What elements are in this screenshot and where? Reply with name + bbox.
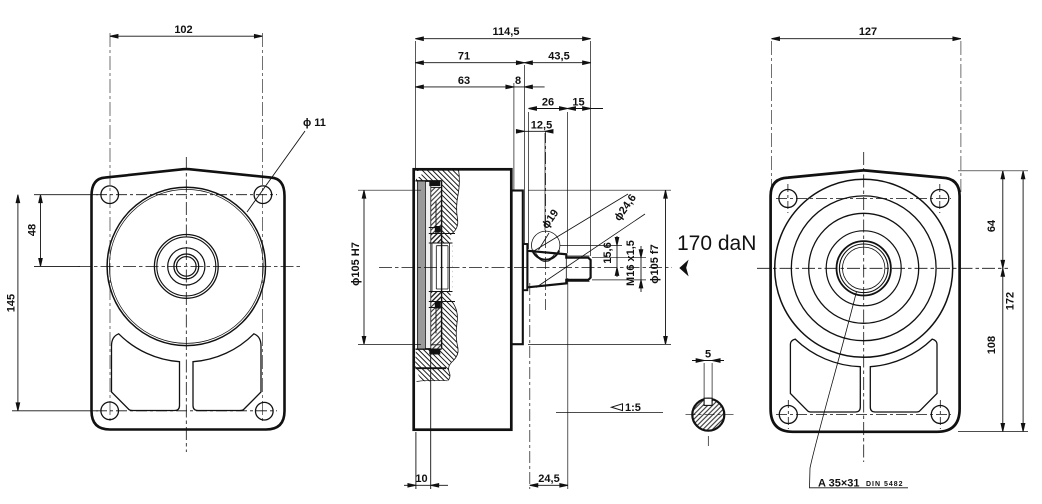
hole vertical ticks <box>788 184 940 429</box>
bolt hole bottom-left <box>779 406 797 424</box>
ball lower heavy arc <box>532 250 559 260</box>
svg-text:A 35×31: A 35×31 <box>818 478 860 490</box>
ball phi19 thin circle <box>532 231 560 259</box>
shaft hole outer <box>174 254 199 279</box>
bolt hole top-right <box>254 186 272 204</box>
spigot plate phi105 f7 <box>511 191 523 345</box>
svg-text:108: 108 <box>986 336 998 354</box>
spline circle <box>843 247 885 289</box>
bearing seat band top <box>429 234 442 244</box>
dim 127 <box>772 37 961 192</box>
dim phi105 H7 <box>358 190 421 344</box>
big circle outer <box>775 179 953 357</box>
svg-text:43,5: 43,5 <box>548 51 569 63</box>
dim 71 / 43.5 <box>415 61 590 65</box>
boss outer circle <box>154 235 218 299</box>
taper 1:5 reference line <box>556 412 663 414</box>
dim 172 <box>1021 171 1025 432</box>
LEFT VIEW <box>6 24 326 452</box>
bearing bush hatch lower <box>431 292 442 349</box>
flange outline (front view) <box>92 169 285 429</box>
tapered shaft with thread <box>528 251 591 287</box>
svg-text:172: 172 <box>1005 292 1017 310</box>
white chamber <box>431 244 453 291</box>
svg-text:145: 145 <box>6 294 18 312</box>
dim 63 / 8 <box>415 85 544 89</box>
bolt hole top-right <box>931 190 949 208</box>
svg-text:15,6: 15,6 <box>602 242 614 263</box>
casting boundary lower <box>448 302 458 381</box>
section housing hatch field <box>415 170 460 382</box>
leader phi24.6 lower <box>536 214 645 288</box>
bore circle outer <box>837 241 891 295</box>
bearing seat band bottom <box>429 292 442 302</box>
dim 114.5 <box>415 37 590 41</box>
svg-text:64: 64 <box>986 219 998 232</box>
dim 26 / 15 <box>529 107 604 111</box>
dim M16 <box>592 246 646 292</box>
svg-text:127: 127 <box>859 26 877 38</box>
main circle (pilot face) <box>107 187 265 345</box>
casting boundary wavy line <box>452 170 459 234</box>
bush bottom line <box>429 344 442 346</box>
svg-text:48: 48 <box>27 224 39 236</box>
pilot face inner ring <box>109 189 263 343</box>
left pocket <box>790 339 860 412</box>
centerline vertical <box>185 157 187 452</box>
step lines bearing seat bottom <box>429 292 455 334</box>
force arrow 170daN <box>679 260 688 277</box>
casting floor thick line <box>416 367 447 369</box>
seal square top inner <box>435 226 441 233</box>
svg-text:26: 26 <box>542 96 554 108</box>
svg-text:102: 102 <box>174 24 192 36</box>
dim 5 key <box>692 359 724 402</box>
hole centerline top <box>776 198 951 200</box>
svg-text:10: 10 <box>415 473 427 485</box>
svg-text:5: 5 <box>705 349 711 361</box>
svg-text:71: 71 <box>458 51 470 63</box>
svg-text:24,5: 24,5 <box>538 473 559 485</box>
seal square top outer <box>429 181 440 186</box>
svg-text:DIN 5482: DIN 5482 <box>866 481 904 488</box>
bush outer wall line <box>441 181 443 349</box>
white notch top-left <box>415 171 422 177</box>
seal square bottom outer <box>429 349 440 355</box>
shaft centerline <box>379 266 672 268</box>
taper symbol triangle <box>612 404 623 411</box>
MIDDLE VIEW <box>350 26 756 489</box>
dim 102 extension left (dash-dot through holes) <box>109 33 111 424</box>
svg-text:M16 x1,5: M16 x1,5 <box>625 240 637 286</box>
liner bottom cap <box>416 348 442 350</box>
svg-text:15: 15 <box>572 96 584 108</box>
seal square bottom inner <box>435 302 441 309</box>
gear chamber outline <box>432 243 450 292</box>
hole centerline top <box>96 194 277 196</box>
boss inner circle <box>157 237 216 296</box>
centerline horizontal <box>757 267 1008 269</box>
thread crest lines <box>566 256 589 282</box>
big circle second <box>791 196 936 341</box>
bolt hole top-left <box>101 186 119 204</box>
shaft hole inner <box>177 257 197 277</box>
liner top cap <box>416 180 442 182</box>
bearing bush hatch upper <box>431 188 442 244</box>
svg-text:ϕ105 H7: ϕ105 H7 <box>350 242 362 286</box>
left pocket <box>112 334 180 411</box>
ball seat inner arc <box>537 255 551 262</box>
body outline <box>414 169 512 429</box>
svg-text:ϕ 11: ϕ 11 <box>303 117 326 129</box>
dim phi105 f7 <box>528 190 671 344</box>
shaft left face <box>527 251 529 287</box>
dim 15.6 <box>560 236 622 277</box>
leader phi24.6 upper <box>533 194 628 252</box>
thread chamfer <box>588 258 590 280</box>
middle circle <box>809 213 919 323</box>
svg-text:12,5: 12,5 <box>531 120 552 132</box>
centerline horizontal <box>78 265 302 267</box>
dim 64 / 108 <box>1001 171 1005 432</box>
leader A35x31 <box>810 292 909 488</box>
bolt hole bottom-right <box>931 406 949 424</box>
dim 24.5 bottom <box>530 278 568 489</box>
right pocket <box>193 334 261 411</box>
dim 102 extension right <box>261 33 263 424</box>
svg-text:63: 63 <box>458 75 470 87</box>
svg-text:170 daN: 170 daN <box>677 232 756 255</box>
hole centerline bottom <box>96 410 277 412</box>
dim 102 line <box>110 34 262 38</box>
dim 145 line <box>12 195 98 411</box>
dim 12.5 <box>516 130 553 134</box>
RIGHT VIEW <box>757 26 1028 490</box>
flange outline (rear view) <box>771 170 960 431</box>
extension lines top <box>415 41 590 256</box>
dim 48 line <box>34 195 98 267</box>
step lines bearing seat top <box>429 202 455 244</box>
hole centerline bottom <box>776 414 951 416</box>
liner left edge <box>417 182 419 349</box>
svg-text:114,5: 114,5 <box>493 26 520 38</box>
bush top line <box>429 186 442 188</box>
bore circle inner <box>839 244 888 293</box>
svg-text:8: 8 <box>515 75 521 87</box>
ball vertical centerline <box>545 131 547 310</box>
svg-text:1:5: 1:5 <box>625 402 641 414</box>
centerline vertical <box>863 152 865 462</box>
hub washer <box>523 244 527 290</box>
middle circle <box>168 248 205 285</box>
leader phi11 <box>247 131 305 212</box>
bore liner light strip <box>425 182 430 349</box>
key section circle <box>686 398 734 446</box>
bolt hole bottom-left <box>101 402 119 420</box>
right pocket <box>870 339 937 412</box>
bore liner gray strip <box>418 182 426 349</box>
bolt hole top-left <box>779 190 797 208</box>
bolt hole bottom-right <box>255 402 273 420</box>
dim 10 bottom <box>404 352 448 489</box>
leader phi19 <box>539 233 550 250</box>
casting boundary bottom break line <box>417 380 448 381</box>
inner circle <box>826 231 901 306</box>
extension lines right <box>958 171 1028 432</box>
ball seat arc <box>536 253 556 260</box>
svg-text:ϕ105 f7: ϕ105 f7 <box>649 244 661 283</box>
